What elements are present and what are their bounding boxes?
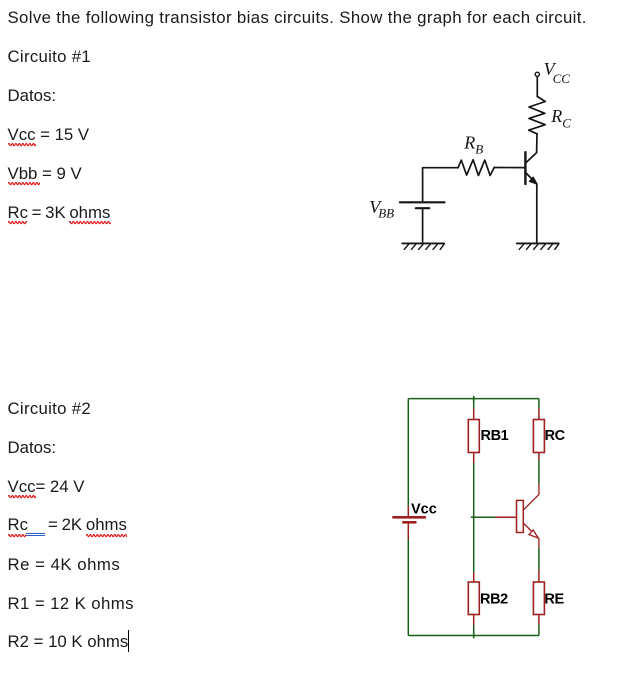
transistor Q2 base pin bbox=[495, 516, 517, 518]
wire Rc to collector bbox=[536, 134, 538, 153]
wire top rail bbox=[408, 398, 539, 400]
resistor RB2 pin top bbox=[473, 573, 475, 583]
wire left rail upper bbox=[407, 399, 409, 506]
resistor RB2 pin bottom bbox=[473, 615, 475, 625]
resistor Rc bbox=[529, 97, 546, 134]
svg-text:Vcc: Vcc bbox=[411, 502, 437, 518]
junction base bbox=[471, 516, 477, 518]
resistor RB1 pin top bbox=[473, 409, 475, 420]
label RC bbox=[550, 106, 571, 131]
wire Vcc to Rc bbox=[536, 77, 538, 97]
transistor Q2 collector lead bbox=[523, 484, 539, 511]
resistor RC pin bottom bbox=[538, 453, 540, 461]
ground right bbox=[517, 243, 559, 249]
wire RE to bottom rail bbox=[538, 625, 540, 636]
battery VBB bottom plate bbox=[416, 207, 430, 209]
wire middle top stub bbox=[473, 399, 475, 409]
resistor RE pin bottom bbox=[538, 615, 540, 625]
junction top middle bbox=[473, 396, 475, 402]
wire middle below RB2 bbox=[473, 625, 475, 636]
svg-text:RB2: RB2 bbox=[480, 592, 508, 608]
svg-text:RC: RC bbox=[545, 428, 566, 444]
resistor RC pin top bbox=[538, 409, 540, 420]
resistor RE pin top bbox=[538, 570, 540, 583]
resistor RC body bbox=[533, 420, 544, 453]
transistor Q1 emitter arrow bbox=[529, 177, 537, 184]
transistor Q1 collector lead bbox=[526, 153, 537, 163]
wire left rail lower bbox=[407, 540, 409, 636]
battery Vcc top plate bbox=[392, 516, 426, 519]
transistor Q2 emitter arrow bbox=[529, 530, 538, 538]
svg-text:RE: RE bbox=[544, 592, 564, 608]
transistor Q1 emitter lead bbox=[526, 173, 537, 185]
wire middle RB1 to RB2 bbox=[473, 463, 475, 573]
resistor RB bbox=[458, 160, 494, 176]
wire bottom rail bbox=[408, 635, 539, 637]
text cursor bbox=[128, 630, 130, 652]
wire RB left to battery bbox=[423, 168, 459, 202]
wire RC to collector bbox=[538, 460, 540, 484]
label VBB bbox=[369, 197, 394, 221]
transistor Q2 emitter lead bbox=[523, 523, 539, 548]
junction bottom middle bbox=[473, 633, 475, 639]
label RB bbox=[463, 132, 483, 156]
battery VBB top plate bbox=[400, 201, 445, 203]
wire emitter to RE bbox=[538, 548, 540, 570]
battery Vcc pin bottom bbox=[407, 524, 409, 540]
resistor RE body bbox=[533, 582, 544, 615]
wire base RB right bbox=[494, 167, 525, 169]
grammar underline (blue double) bbox=[26, 533, 46, 534]
wire emitter to ground bbox=[536, 184, 538, 243]
node Vcc terminal bbox=[535, 72, 539, 76]
svg-text:RB1: RB1 bbox=[481, 428, 509, 444]
wire base bbox=[474, 516, 495, 518]
transistor Q2 body bar bbox=[517, 500, 524, 532]
resistor RB1 body bbox=[468, 420, 479, 453]
resistor RB2 body bbox=[468, 582, 479, 615]
ground left bbox=[402, 243, 444, 249]
label VCC bbox=[544, 59, 571, 86]
battery Vcc bottom plate bbox=[402, 521, 416, 524]
resistor RB1 pin bottom bbox=[473, 453, 475, 464]
wire right top stub bbox=[538, 399, 540, 409]
wire battery to ground bbox=[422, 208, 424, 243]
battery Vcc pin top bbox=[407, 506, 409, 516]
transistor Q1 base bar bbox=[524, 152, 526, 184]
